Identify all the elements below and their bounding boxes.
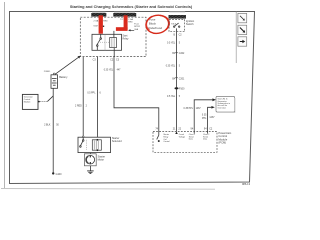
button zoom-in [238, 25, 247, 34]
relay coil bottom pin wire [113, 48, 115, 57]
svg-text:2 BLK: 2 BLK [44, 124, 51, 126]
battery positive cable diagonal to fuse block [55, 57, 79, 74]
svg-text:0.5 YEL: 0.5 YEL [167, 43, 176, 45]
connector tick C202 [175, 52, 178, 54]
generator box [22, 94, 38, 109]
wire: battery negative to ground G100 [52, 88, 54, 173]
svg-text:1467: 1467 [196, 108, 202, 110]
label: Starter Relay [123, 35, 130, 41]
svg-text:1467: 1467 [209, 117, 215, 119]
red highlighted wire: mega fuse feed to relay contact [99, 15, 103, 33]
svg-text:30A: 30A [134, 28, 138, 31]
wire: relay output PPL 6 to solenoid S [96, 57, 98, 138]
relay contact [97, 34, 102, 50]
svg-text:S107: S107 [93, 26, 99, 28]
svg-text:0.35 YEL: 0.35 YEL [166, 66, 176, 68]
svg-text:0.35 PPL: 0.35 PPL [184, 108, 194, 110]
svg-text:2 RED: 2 RED [75, 105, 82, 107]
ground symbol [87, 171, 94, 174]
ground G100 [52, 172, 54, 174]
svg-text:Voltage: Voltage [179, 135, 185, 138]
PCM node: class 2 serial data [189, 132, 195, 141]
grommet P100 [175, 87, 179, 89]
PCM driver: starter relay coil control [157, 132, 170, 144]
svg-text:Underhood: Underhood [148, 26, 163, 30]
reference callout box [216, 96, 235, 112]
wire: starter motor case ground [89, 166, 91, 171]
viewer button panel line [235, 12, 237, 63]
wire: relay coil control to PCM pin 74 [114, 57, 159, 132]
label: Powertrain Control Module (PCM) [218, 131, 231, 144]
svg-text:Relay: Relay [123, 38, 130, 40]
fuse label text around red wire 2 [120, 18, 141, 31]
relay actuation dashed link [98, 41, 109, 43]
svg-text:P100: P100 [179, 88, 185, 90]
svg-text:(PCM): (PCM) [218, 140, 226, 144]
svg-text:0.5 PPL: 0.5 PPL [87, 93, 96, 95]
wire: solenoid B feed cable [82, 57, 84, 137]
wire: PCM pin 94 class 2 data to reference [194, 100, 212, 132]
solenoid coil [92, 140, 101, 150]
svg-text:PPL: PPL [202, 118, 207, 120]
svg-text:Battery: Battery [59, 75, 68, 79]
svg-text:0.35 YEL: 0.35 YEL [104, 70, 114, 72]
svg-text:C202: C202 [179, 53, 185, 55]
svg-text:Solenoid: Solenoid [112, 140, 122, 143]
wire: PCM pin 94 C2 to reference [208, 107, 212, 131]
relay coil top pin wire [113, 31, 115, 38]
svg-text:G100: G100 [56, 173, 63, 176]
scan edge line bottom [1, 188, 215, 191]
solenoid plunger dashed [85, 140, 87, 150]
red highlighted wire: fuse feed to relay coil (L shape) [124, 15, 128, 29]
svg-text:Control: Control [163, 140, 170, 143]
caption above bus bar 3 [169, 10, 185, 13]
svg-text:TO: TO [120, 19, 123, 21]
caption above bus bar 1 [92, 11, 106, 14]
relay internal divider [104, 34, 106, 50]
ignition switch dashed box [169, 20, 185, 32]
ignition switch internals [174, 23, 180, 32]
svg-text:0.35: 0.35 [202, 115, 207, 117]
svg-text:Starting and Charging Schemati: Starting and Charging Schematics (Starte… [70, 4, 193, 9]
scan edge line left [4, 2, 6, 189]
caption above bus bar 2 [114, 11, 135, 14]
starter motor [84, 154, 96, 166]
svg-text:2 RED: 2 RED [44, 71, 51, 73]
diagram border frame [10, 12, 255, 184]
svg-text:Motor: Motor [98, 158, 105, 161]
splice dot S107 [103, 26, 104, 27]
svg-text:986-13: 986-13 [242, 182, 251, 186]
button next-page [238, 37, 247, 46]
page background [0, 0, 263, 192]
solenoid contact [80, 137, 84, 147]
wire: solenoid to starter motor [89, 153, 91, 154]
solenoid S terminal ring [82, 136, 84, 138]
connector tick C201 [175, 77, 178, 79]
fuse label text left of red wire 1 [93, 19, 108, 27]
wire: ignition crank signal YEL to PCM [176, 32, 178, 132]
svg-text:RED: RED [128, 22, 133, 24]
PCM dashed box [153, 132, 217, 153]
relay coil [110, 38, 117, 48]
svg-text:0.5 YEL: 0.5 YEL [167, 96, 176, 98]
button zoom-out [238, 13, 247, 22]
starter relay box [92, 34, 122, 50]
hot-at-all-times bus bar 1 [92, 13, 107, 16]
svg-text:Switch: Switch [186, 22, 194, 26]
svg-text:C201: C201 [179, 78, 185, 80]
hot-in-start bus bar 3 [169, 15, 186, 18]
label: Fuse Block Underhood [148, 18, 163, 30]
svg-text:R A S: R A S [171, 23, 176, 26]
PCM input: crank voltage [175, 132, 185, 139]
svg-text:RED: RED [103, 20, 108, 22]
hot-at-all-times bus bar 2 [114, 13, 137, 16]
annotation arrow at relay feed [128, 29, 130, 31]
battery [51, 73, 58, 88]
svg-text:Start: Start [123, 35, 128, 38]
svg-text:MTR2: MTR2 [134, 26, 141, 28]
svg-text:Module: Module [24, 102, 31, 104]
starter solenoid box [78, 137, 111, 152]
PCM pin labels [155, 127, 213, 130]
svg-text:2 GA: 2 GA [93, 19, 98, 22]
svg-text:Overview: Overview [218, 107, 227, 109]
underhood fuse block dashed box [80, 17, 146, 56]
red annotation ellipse [145, 13, 171, 35]
generator output terminal [38, 101, 39, 102]
wire: generator to battery negative line [40, 101, 48, 103]
PCM node: class 2 serial data 2 [203, 132, 209, 141]
svg-text:2 GA: 2 GA [128, 18, 133, 21]
